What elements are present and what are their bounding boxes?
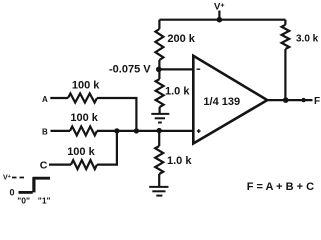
svg-text:100 k: 100 k	[70, 112, 98, 124]
svg-text:100 k: 100 k	[72, 79, 100, 91]
svg-text:1/4 139: 1/4 139	[203, 96, 240, 108]
svg-text:F = A + B + C: F = A + B + C	[247, 181, 314, 193]
svg-text:-0.075 V: -0.075 V	[109, 64, 151, 76]
svg-text:"1": "1"	[38, 195, 51, 205]
svg-text:100 k: 100 k	[67, 146, 95, 158]
svg-text:200 k: 200 k	[167, 33, 195, 45]
svg-text:3.0 k: 3.0 k	[296, 34, 319, 45]
svg-text:0: 0	[10, 188, 15, 198]
svg-text:F: F	[314, 96, 320, 107]
svg-text:"0": "0"	[17, 195, 30, 205]
svg-text:C: C	[40, 159, 48, 171]
svg-text:1.0 k: 1.0 k	[165, 86, 190, 98]
svg-text:1.0 k: 1.0 k	[167, 155, 192, 167]
svg-text:A: A	[42, 95, 48, 104]
svg-text:B: B	[42, 127, 48, 136]
